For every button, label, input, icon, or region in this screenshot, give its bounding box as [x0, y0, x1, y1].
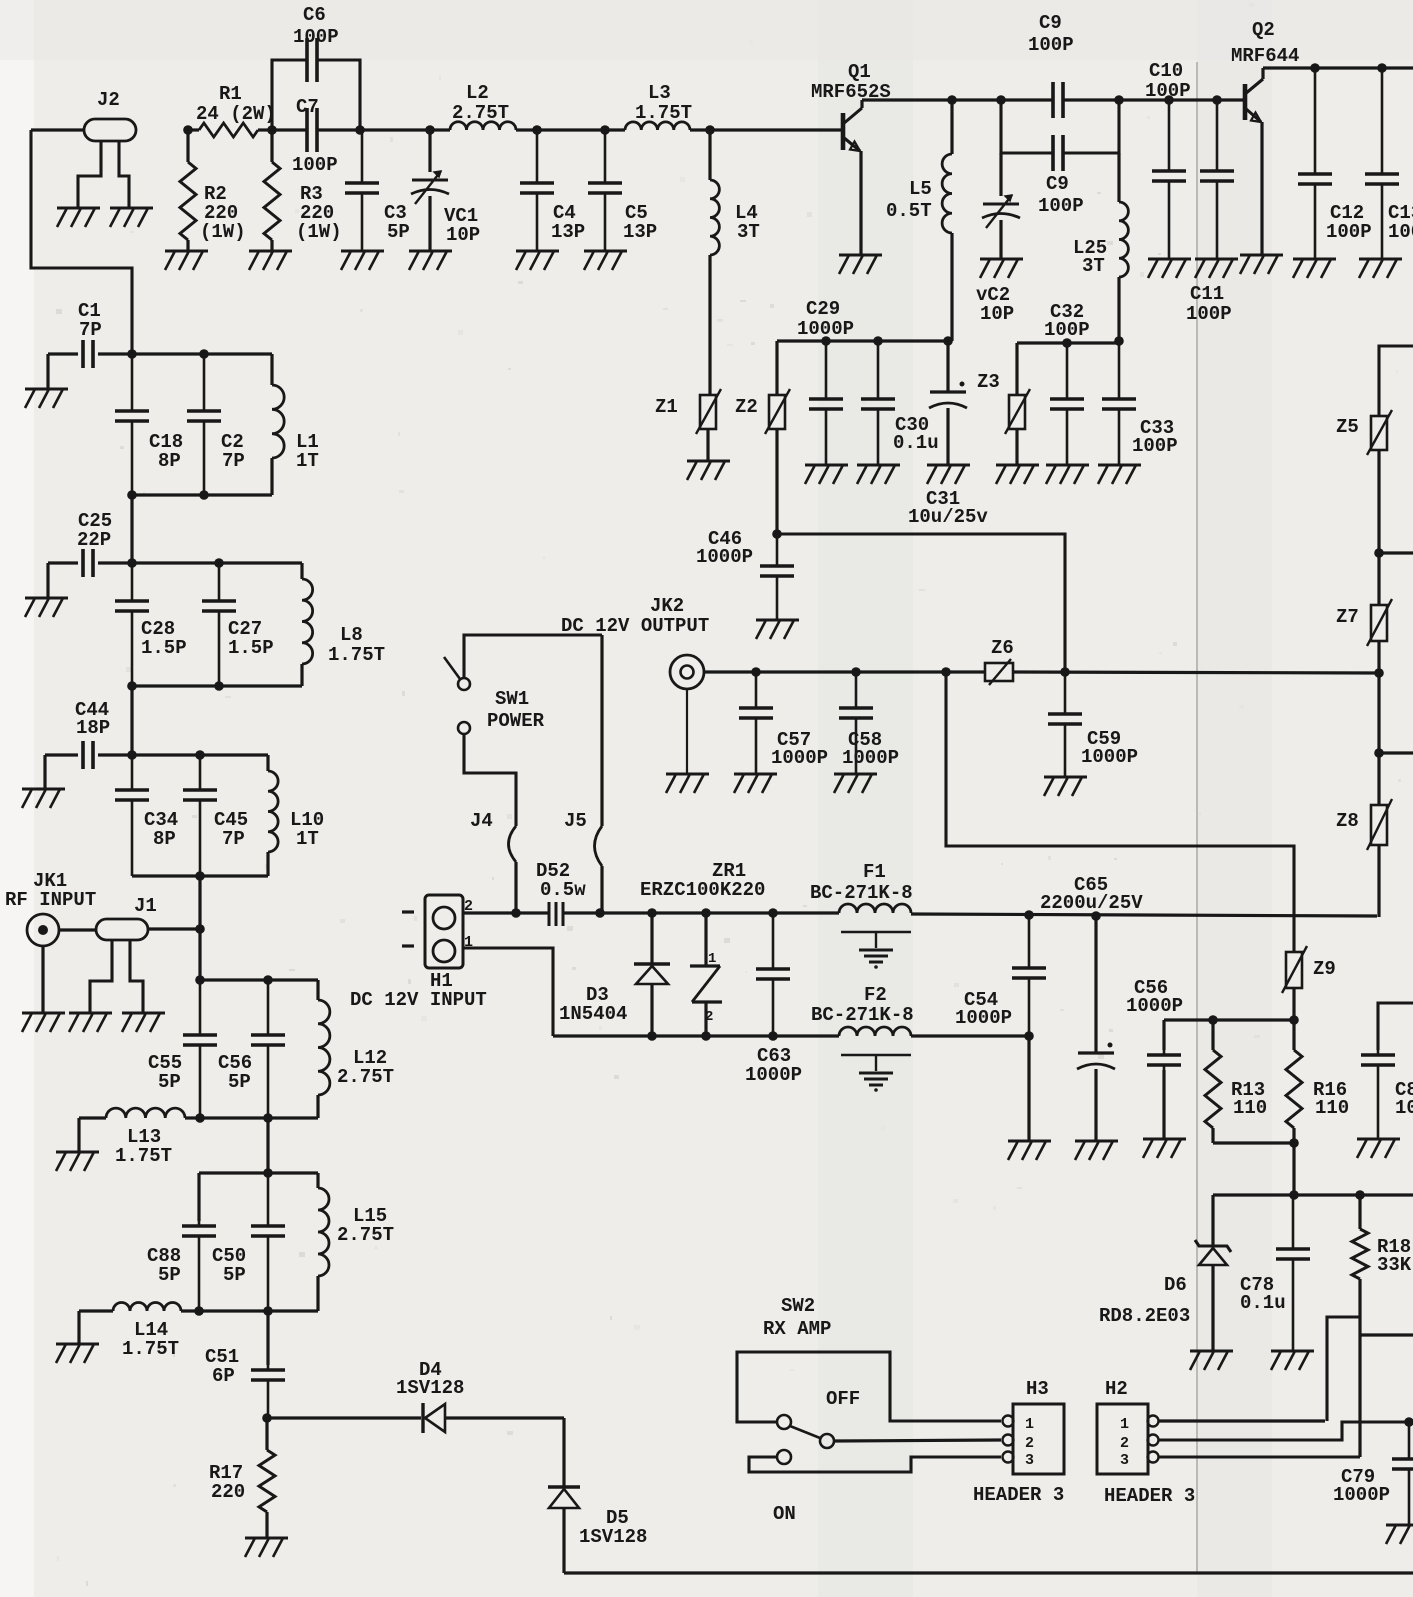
label C50: [212, 1245, 246, 1286]
svg-text:100P: 100P: [293, 26, 339, 48]
node ZR1 bot: [701, 1031, 711, 1041]
svg-text:(1W): (1W): [200, 221, 246, 243]
label L14: [122, 1319, 179, 1360]
svg-text:C9: C9: [1039, 12, 1062, 34]
svg-text:1000P: 1000P: [1126, 995, 1183, 1017]
svg-text:C9: C9: [1046, 173, 1069, 195]
svg-text:H2: H2: [1105, 1378, 1128, 1400]
label OFF: [826, 1388, 860, 1410]
connector H2: [1097, 1404, 1159, 1474]
label L12: [337, 1047, 394, 1088]
svg-text:3T: 3T: [737, 221, 760, 243]
label C55: [148, 1052, 182, 1093]
label L10: [290, 809, 324, 850]
wire SW2 off loop: [737, 1352, 1001, 1422]
capacitor C25: [83, 549, 93, 577]
wire C7 left: [272, 128, 307, 131]
wire H1 pin1: [463, 948, 553, 1036]
svg-text:100P: 100P: [1038, 195, 1084, 217]
wire L13 gnd lead: [77, 1118, 80, 1151]
wire R18 jog: [1327, 1317, 1360, 1421]
svg-text:3: 3: [1025, 1452, 1034, 1469]
capacitor C58: [839, 672, 873, 773]
varistor Z2: [765, 341, 790, 534]
resistor R1: [188, 123, 272, 137]
inductor L2: [450, 122, 516, 130]
jumper J4: [509, 826, 517, 862]
ground C78: [1271, 1351, 1314, 1370]
svg-text:7P: 7P: [222, 450, 245, 472]
wire D6 line: [1213, 1193, 1413, 1196]
node C79: [1404, 1417, 1413, 1427]
wire main dc c: [911, 914, 1377, 916]
svg-text:1.5P: 1.5P: [141, 637, 187, 659]
wire C29 line: [777, 339, 948, 342]
ground VC2: [980, 259, 1023, 278]
node C30: [873, 336, 883, 346]
svg-text:Z8: Z8: [1336, 810, 1359, 832]
label L1: [296, 431, 319, 472]
svg-text:2200u/25V: 2200u/25V: [1040, 892, 1143, 914]
ground Z3: [996, 465, 1039, 484]
label H1: [350, 970, 487, 1011]
wire return line: [553, 1034, 839, 1037]
capacitor C10: [1152, 100, 1186, 258]
wire branch to Z9: [946, 672, 1294, 952]
node C4: [532, 125, 542, 135]
svg-text:L5: L5: [909, 178, 932, 200]
svg-text:3T: 3T: [1082, 255, 1105, 277]
transistor Q1: [843, 100, 862, 254]
label JK1: [5, 870, 96, 911]
label C5: [623, 202, 657, 243]
svg-text:1000P: 1000P: [696, 546, 753, 568]
wire C6 loop: [272, 60, 360, 130]
node C45 bot: [195, 871, 205, 881]
ground C29a: [805, 465, 848, 484]
svg-text:7P: 7P: [79, 319, 102, 341]
label SW1: [487, 688, 545, 732]
capacitor C78: [1276, 1195, 1310, 1350]
node C13: [1377, 63, 1387, 73]
earth F2: [841, 1055, 911, 1092]
label H2: [1105, 1378, 1128, 1400]
ground C12: [1293, 259, 1336, 278]
label C59: [1081, 728, 1138, 768]
svg-text:Q2: Q2: [1252, 19, 1275, 41]
ground C79: [1386, 1525, 1413, 1544]
svg-text:C11: C11: [1190, 283, 1224, 305]
svg-text:HEADER 3: HEADER 3: [973, 1484, 1064, 1506]
ground L13: [56, 1152, 99, 1171]
svg-text:OFF: OFF: [826, 1388, 860, 1410]
node C29a: [821, 336, 831, 346]
svg-text:Q1: Q1: [848, 61, 871, 83]
label L3: [635, 82, 692, 124]
svg-text:F2: F2: [864, 984, 887, 1006]
label D5: [579, 1507, 647, 1548]
capacitor C57: [739, 672, 773, 773]
svg-text:10u/25v: 10u/25v: [908, 506, 988, 528]
node C54 mid: [1024, 1031, 1034, 1041]
ground C56: [1143, 1139, 1186, 1158]
wire C32 line: [1017, 341, 1119, 344]
wire rail1 b: [430, 128, 450, 131]
svg-text:0.1u: 0.1u: [893, 432, 939, 454]
label C18: [149, 431, 183, 472]
capacitor C12: [1298, 68, 1332, 258]
varcap VC2: [982, 153, 1020, 258]
svg-text:13P: 13P: [551, 221, 585, 243]
svg-text:Z6: Z6: [991, 637, 1014, 659]
varistor Z6: [985, 659, 1013, 685]
capacitor C7: [307, 108, 317, 152]
label L5: [886, 178, 932, 222]
svg-text:1N5404: 1N5404: [559, 1003, 627, 1025]
svg-text:ERZC100K220: ERZC100K220: [640, 879, 765, 901]
varistor Z7: [1367, 599, 1392, 646]
varistor ZR1: [690, 913, 722, 1036]
label JK2: [561, 595, 709, 637]
node J1: [195, 924, 205, 934]
label C58: [842, 729, 899, 769]
svg-text:Z1: Z1: [655, 396, 678, 418]
node C2 bot: [199, 490, 209, 500]
label R2: [200, 183, 246, 243]
wire JK2 gnd: [686, 689, 688, 773]
ground C13: [1359, 259, 1402, 278]
resistor R3: [264, 130, 280, 250]
label H1 pin2: [464, 898, 473, 915]
ground J2 left: [57, 208, 100, 227]
node C7 out: [355, 125, 365, 135]
node C9 loop left: [996, 95, 1006, 105]
svg-text:J4: J4: [470, 810, 493, 832]
label C3: [384, 202, 410, 243]
wire R18 tap: [1360, 1333, 1413, 1336]
svg-text:D6: D6: [1164, 1274, 1187, 1296]
node C50 bot: [263, 1306, 273, 1316]
label C33: [1132, 417, 1178, 457]
label L13: [115, 1126, 172, 1167]
wire rail2 a: [862, 98, 1053, 101]
node C2: [199, 349, 209, 359]
label C51: [205, 1346, 239, 1387]
capacitor C32: [1050, 343, 1084, 464]
inductor L4: [710, 130, 719, 395]
wire J1 stub left: [90, 940, 112, 1012]
ground C44: [22, 789, 65, 808]
wire C55 row: [200, 978, 318, 981]
svg-text:ON: ON: [773, 1503, 796, 1525]
inductor L25: [1119, 153, 1128, 341]
svg-text:8P: 8P: [158, 450, 181, 472]
wire col drop2: [130, 686, 133, 755]
capacitor C54: [1012, 915, 1046, 1140]
wire left drop: [31, 130, 132, 354]
wire C88 row: [199, 1171, 318, 1174]
label C8: [1028, 12, 1074, 56]
label H3: [1026, 1378, 1049, 1400]
label C45: [214, 809, 248, 850]
connector H3: [1003, 1404, 1065, 1474]
wire L14 lead: [79, 1309, 113, 1312]
capacitor C8 series: [1053, 82, 1063, 118]
node C27 bot: [214, 681, 224, 691]
node C28 bot: [127, 681, 137, 691]
capacitor C33: [1102, 343, 1136, 464]
capacitor C6: [307, 38, 317, 82]
svg-text:1: 1: [708, 951, 716, 967]
wire C44 row bottom: [132, 874, 268, 877]
svg-text:2.75T: 2.75T: [337, 1224, 394, 1246]
ground C1: [25, 389, 68, 408]
node C31: [943, 336, 953, 346]
svg-text:L2: L2: [466, 82, 489, 104]
label Z9: [1313, 958, 1336, 980]
svg-text:J1: J1: [134, 895, 157, 917]
label D6: [1099, 1274, 1190, 1327]
label C12: [1326, 202, 1372, 243]
capacitor C56L: [251, 980, 285, 1118]
ground VC1: [409, 251, 452, 270]
label L15: [337, 1205, 394, 1246]
svg-text:BC-271K-8: BC-271K-8: [811, 1004, 914, 1026]
svg-text:3: 3: [1120, 1452, 1129, 1469]
label C80: [1395, 1079, 1413, 1119]
wire J1 stub right: [130, 940, 143, 1012]
wire main dc b: [563, 911, 839, 914]
svg-text:2: 2: [1120, 1435, 1129, 1452]
label J1: [134, 895, 157, 917]
wire C1 gnd lead: [46, 354, 49, 388]
resistor R2: [180, 130, 196, 250]
label C54: [955, 989, 1012, 1029]
label C78: [1240, 1274, 1286, 1314]
node L4: [705, 125, 715, 135]
svg-text:C29: C29: [806, 298, 840, 320]
wire J2 stub right: [119, 141, 129, 207]
svg-text:1.75T: 1.75T: [115, 1145, 172, 1167]
label C46: [696, 528, 753, 568]
node C45: [195, 750, 205, 760]
svg-text:MRF644: MRF644: [1231, 45, 1299, 67]
ground C32: [1046, 465, 1089, 484]
node C32: [1062, 338, 1072, 348]
node C57: [751, 667, 761, 677]
connector JK2: [670, 655, 704, 689]
svg-text:1000P: 1000P: [1081, 746, 1138, 768]
node C54 top: [1024, 910, 1034, 920]
capacitor C27: [202, 563, 236, 686]
svg-text:1SV128: 1SV128: [579, 1526, 647, 1548]
label C25: [77, 510, 112, 551]
label C10: [1145, 60, 1191, 102]
svg-text:22P: 22P: [77, 529, 111, 551]
wire L14 gnd lead: [77, 1311, 80, 1343]
svg-text:1.5P: 1.5P: [228, 637, 274, 659]
node C59: [1060, 667, 1070, 677]
ferrite F2: [839, 1027, 911, 1036]
label L25: [1073, 237, 1107, 277]
svg-text:1.75T: 1.75T: [635, 102, 692, 124]
connector JK1: [27, 914, 59, 946]
svg-text:(1W): (1W): [296, 221, 342, 243]
svg-text:1: 1: [1120, 1416, 1129, 1433]
svg-text:RD8.2E03: RD8.2E03: [1099, 1305, 1190, 1327]
svg-text:13P: 13P: [623, 221, 657, 243]
label C31: [908, 488, 988, 528]
node J4 join: [511, 908, 521, 918]
label C27: [228, 618, 274, 659]
capacitor C59: [1048, 672, 1082, 776]
ground C80: [1357, 1139, 1400, 1158]
node D6 line b: [1355, 1190, 1365, 1200]
node ZR1: [701, 908, 711, 918]
wire return line b: [911, 1034, 1029, 1037]
svg-text:1T: 1T: [296, 828, 319, 850]
label C6: [293, 4, 339, 48]
label J2: [97, 89, 120, 111]
svg-text:5P: 5P: [158, 1071, 181, 1093]
svg-text:C10: C10: [1149, 60, 1183, 82]
ground C57: [734, 774, 777, 793]
wire R13-R16: [1213, 1141, 1294, 1144]
wire H2 pin3: [1159, 1455, 1360, 1458]
svg-text:0.5w: 0.5w: [540, 879, 586, 901]
ground Z1: [687, 461, 730, 480]
svg-text:5P: 5P: [223, 1264, 246, 1286]
wire left entry: [31, 128, 84, 131]
label F1: [810, 861, 913, 904]
node D6 line a: [1289, 1190, 1299, 1200]
ground JK2: [666, 774, 709, 793]
node D3 bot: [647, 1031, 657, 1041]
svg-text:1000P: 1000P: [1333, 1484, 1390, 1506]
capacitor C56: [1147, 1020, 1181, 1138]
earth F1: [841, 932, 911, 969]
connector J2: [84, 119, 136, 141]
node R1-R3: [267, 125, 277, 135]
svg-text:100P: 100P: [1326, 221, 1372, 243]
svg-text:POWER: POWER: [487, 710, 545, 732]
wire C31 line: [777, 534, 1065, 672]
node R16 top: [1289, 1015, 1299, 1025]
ground C54: [1008, 1141, 1051, 1160]
svg-text:1000P: 1000P: [771, 747, 828, 769]
svg-text:100P: 100P: [1132, 435, 1178, 457]
svg-text:C7: C7: [296, 96, 319, 118]
capacitor C28: [115, 563, 149, 686]
wire bottom bus: [564, 1571, 1413, 1574]
capacitor C50: [251, 1173, 285, 1311]
label C34: [144, 809, 178, 850]
ground C10: [1148, 259, 1191, 278]
label ZR1 pin2: [705, 1009, 713, 1025]
varcap VC1: [411, 130, 449, 250]
svg-text:SW2: SW2: [781, 1295, 815, 1317]
svg-text:0.5T: 0.5T: [886, 200, 932, 222]
wire L14 row: [181, 1309, 318, 1312]
svg-text:8P: 8P: [153, 828, 176, 850]
label R17: [209, 1462, 245, 1503]
capacitor C55: [183, 980, 217, 1118]
wire J1 out: [148, 927, 200, 930]
label C56L: [218, 1052, 252, 1093]
label Z6: [991, 637, 1014, 659]
label SW2: [763, 1295, 831, 1340]
capacitor C46: [760, 534, 794, 619]
svg-text:100P: 100P: [1388, 221, 1413, 243]
label C32: [1044, 301, 1090, 341]
label D4: [396, 1359, 464, 1399]
wire J2 stub left: [78, 141, 101, 207]
svg-text:SW1: SW1: [495, 688, 529, 710]
svg-text:1T: 1T: [296, 450, 319, 472]
wire JK1-J1: [59, 928, 96, 931]
ground C3: [341, 251, 384, 270]
wire Zchain top: [1379, 346, 1413, 416]
svg-text:1SV128: 1SV128: [396, 1377, 464, 1399]
label H2 HEADER: [1104, 1485, 1195, 1507]
svg-text:HEADER 3: HEADER 3: [1104, 1485, 1195, 1507]
wire L13 row: [185, 1116, 318, 1119]
capacitor C31: [929, 341, 967, 464]
svg-text:10P: 10P: [980, 303, 1014, 325]
node C27: [214, 558, 224, 568]
svg-text:6P: 6P: [212, 1365, 235, 1387]
label H2 pins: [1120, 1416, 1129, 1469]
svg-text:18P: 18P: [76, 717, 110, 739]
label C63: [745, 1045, 802, 1086]
node C9 loop right: [1114, 95, 1124, 105]
node C18: [127, 349, 137, 359]
svg-text:1.75T: 1.75T: [328, 644, 385, 666]
node C11: [1212, 95, 1222, 105]
label C9: [1038, 173, 1084, 217]
diode D3: [634, 913, 670, 1036]
node C65 top: [1091, 911, 1101, 921]
svg-text:33K: 33K: [1377, 1254, 1412, 1276]
node Z tap1: [1374, 548, 1384, 558]
svg-text:F1: F1: [863, 861, 886, 883]
capacitor C2: [187, 354, 221, 495]
wire SW2 com: [834, 1440, 1001, 1441]
label C88: [147, 1245, 181, 1286]
node C12: [1310, 63, 1320, 73]
zener D6: [1195, 1195, 1231, 1350]
svg-text:24 (2W): 24 (2W): [196, 103, 276, 125]
inductor L13: [106, 1108, 185, 1118]
label Q1: [811, 61, 891, 103]
svg-text:1: 1: [1025, 1416, 1034, 1433]
node C56L: [263, 975, 273, 985]
wire J5 upper: [600, 635, 603, 826]
varistor Z5: [1367, 410, 1392, 455]
wire R16 down: [1292, 1143, 1295, 1195]
node C55: [195, 975, 205, 985]
label Z5: [1336, 416, 1359, 438]
inductor L3: [625, 122, 690, 130]
wire D4 line: [267, 1416, 421, 1419]
wire H2 pin1: [1159, 1419, 1325, 1422]
label H3 pins: [1025, 1416, 1034, 1469]
wire C25 row bottom: [132, 684, 302, 687]
node R13 top: [1208, 1015, 1218, 1025]
svg-text:2: 2: [705, 1009, 713, 1025]
svg-text:100P: 100P: [292, 154, 338, 176]
capacitor C80: [1361, 1050, 1395, 1138]
